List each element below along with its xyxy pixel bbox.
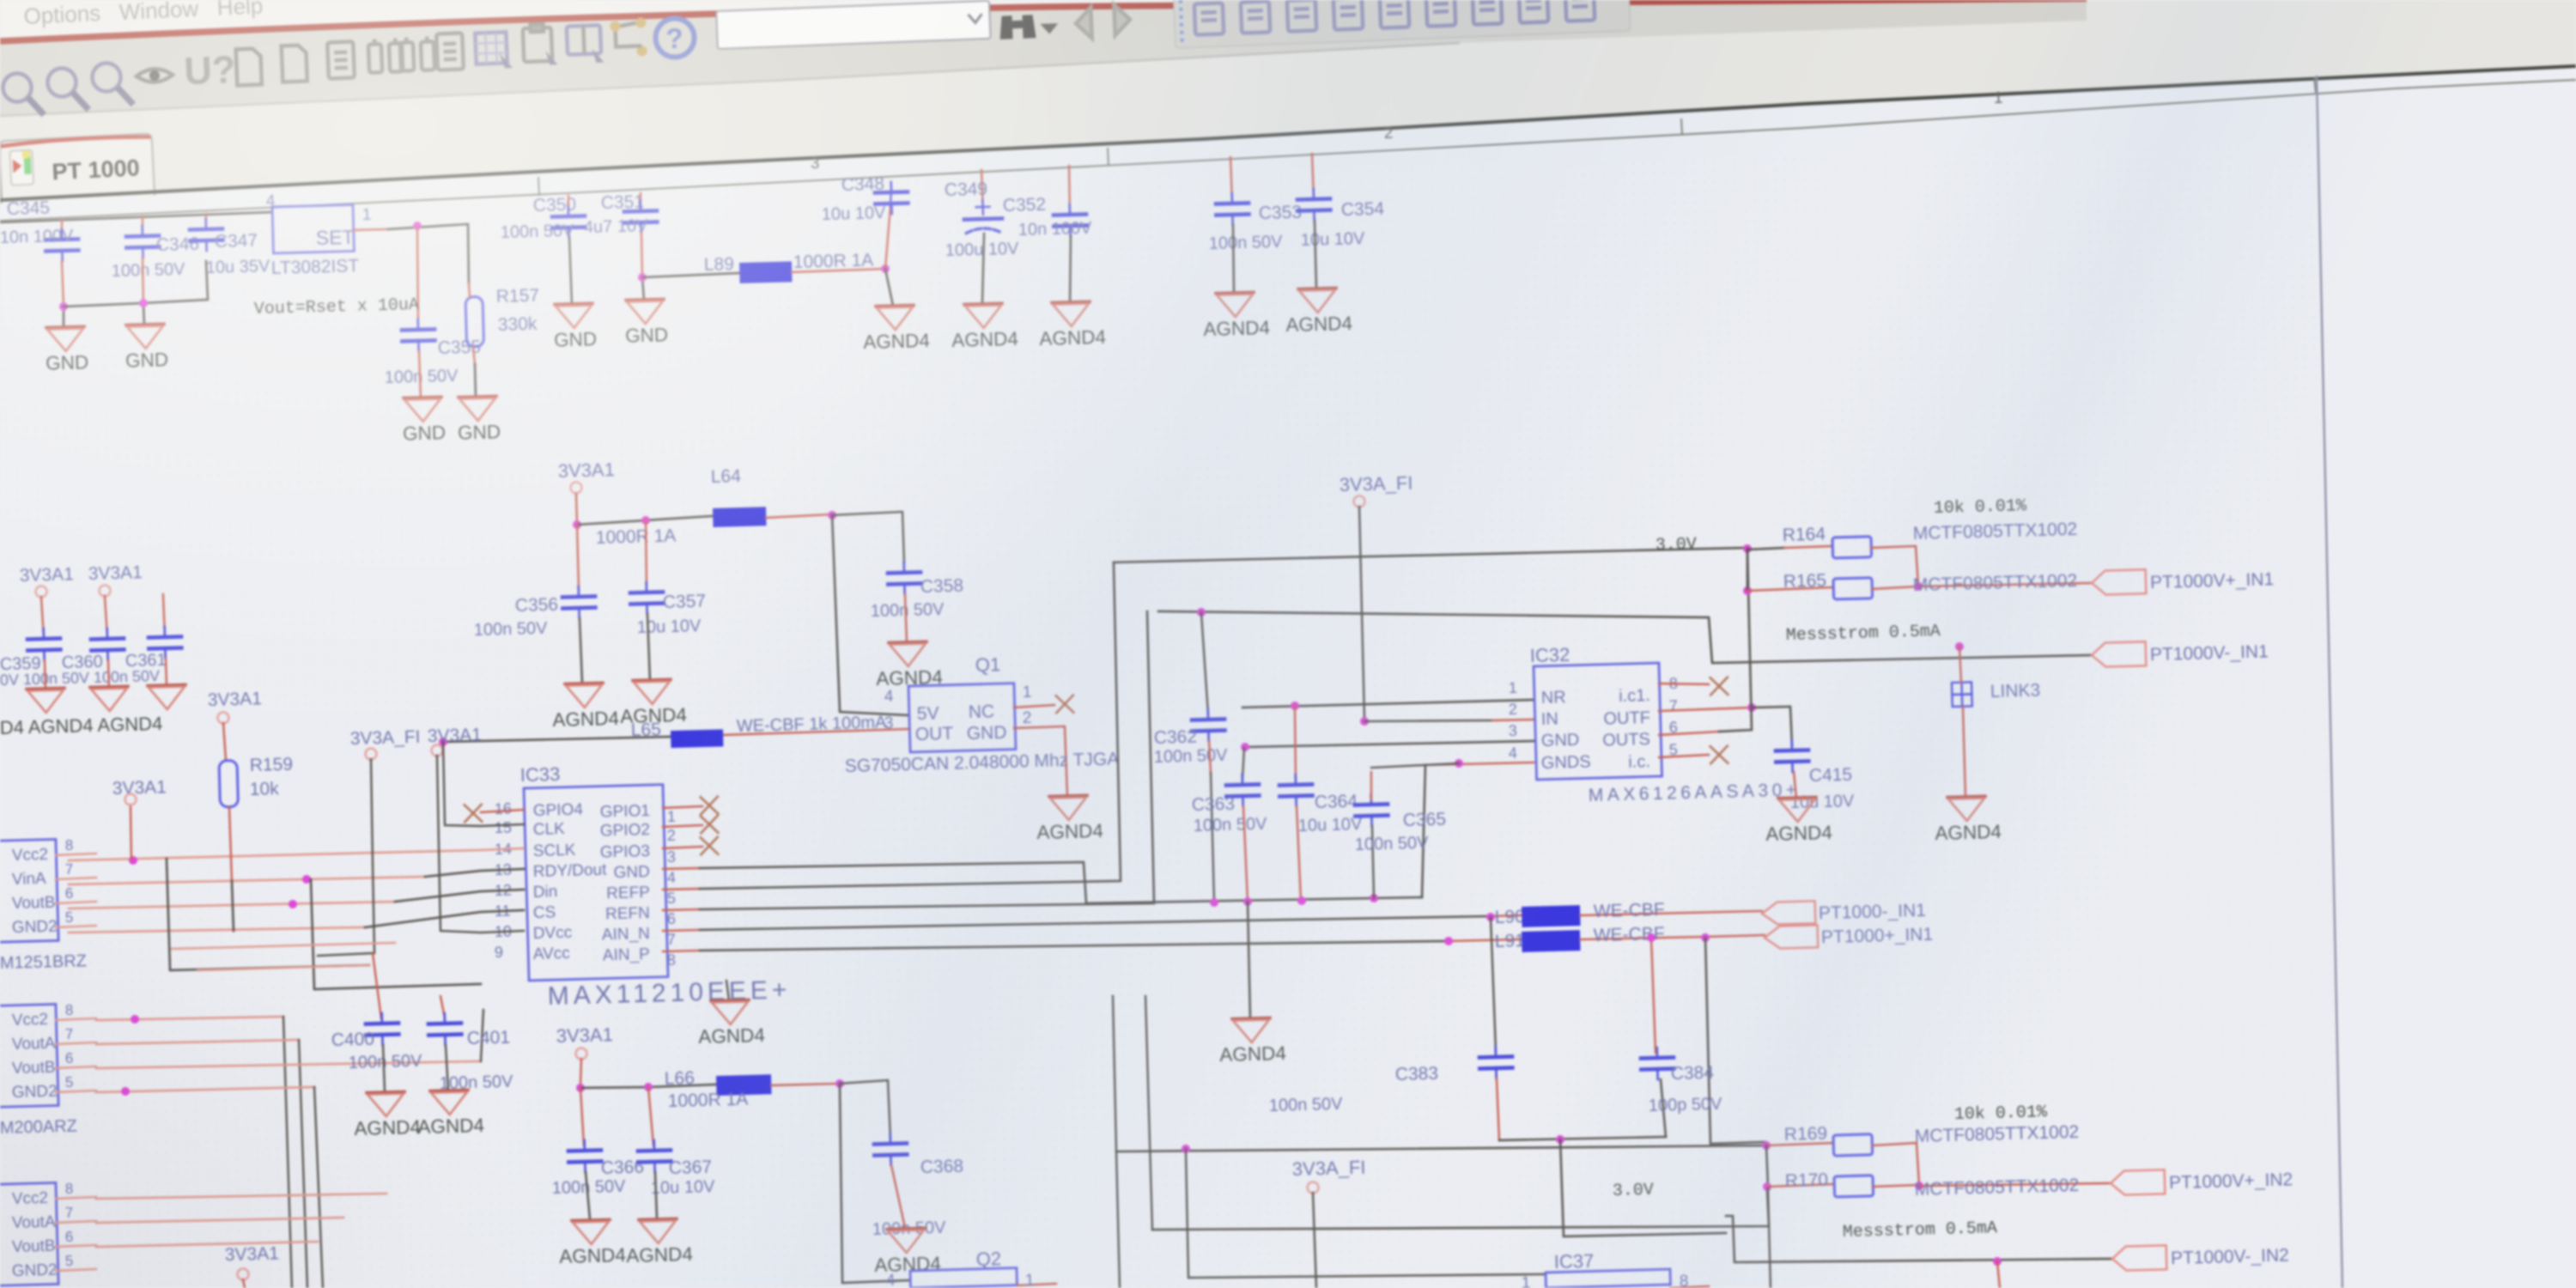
inductor L89 xyxy=(739,261,793,283)
svg-text:GPIO3: GPIO3 xyxy=(600,842,651,862)
ground AGND4 xyxy=(862,305,930,353)
wire OUTF to C415 xyxy=(1752,707,1792,746)
junction xyxy=(1370,894,1378,902)
wire mesh h4 xyxy=(69,925,365,936)
svg-text:PT1000V-_IN1: PT1000V-_IN1 xyxy=(2150,641,2269,665)
wire IC33 pin16 stub xyxy=(481,810,524,812)
ground AGND4 xyxy=(416,1090,484,1138)
power pin 3V3A1 xyxy=(237,1268,248,1279)
svg-text:100n 50V: 100n 50V xyxy=(1355,834,1430,854)
wire left block stub xyxy=(56,1066,96,1068)
ground GND xyxy=(624,299,668,346)
wire loop drop xyxy=(1560,1135,1726,1237)
svg-text:Vcc2: Vcc2 xyxy=(12,846,49,865)
wire C360 stem xyxy=(105,596,107,637)
sheet area top border line A xyxy=(0,66,2576,200)
svg-text:4: 4 xyxy=(266,192,276,210)
wire L91 out xyxy=(1580,936,1704,940)
wire OUTF out xyxy=(1659,708,1752,711)
IC block (left edge) xyxy=(0,839,58,943)
capacitor C356 xyxy=(562,586,596,619)
port PT1000+_IN1 xyxy=(1765,922,1934,949)
capacitor C360 xyxy=(91,628,125,660)
wire 3V3A1 bot down xyxy=(580,1059,582,1087)
svg-text:3: 3 xyxy=(811,155,820,173)
capacitor C415 xyxy=(1776,739,1809,772)
svg-text:1000R 1A: 1000R 1A xyxy=(668,1090,749,1112)
wire bus riser GNDS xyxy=(1419,765,1429,897)
toolbar band xyxy=(0,0,2087,116)
svg-text:PT1000-_IN1: PT1000-_IN1 xyxy=(1819,901,1926,923)
svg-text:?: ? xyxy=(665,22,684,55)
wire C365 col xyxy=(1370,772,1372,799)
svg-text:WE-CBF: WE-CBF xyxy=(1594,900,1665,921)
wire R170 in xyxy=(1768,1184,1834,1187)
ground AGND4 xyxy=(90,686,129,711)
wire L89 out xyxy=(792,269,885,272)
wire 3V3A_FI bot riser xyxy=(1313,1193,1316,1288)
toolbar icon doc xyxy=(436,33,464,70)
svg-text:R159: R159 xyxy=(249,755,293,775)
svg-text:RDY/Dout: RDY/Dout xyxy=(533,861,608,881)
svg-text:R164: R164 xyxy=(1782,525,1826,545)
port PT1000V-_IN1 xyxy=(2092,638,2269,667)
sheet frame number row line B xyxy=(0,80,2576,221)
svg-text:6: 6 xyxy=(65,1050,74,1066)
wire C355 drop xyxy=(416,226,420,319)
svg-text:7: 7 xyxy=(65,1205,74,1221)
power pin 3V3A1 xyxy=(575,1048,586,1059)
wire top rail W1 xyxy=(0,212,272,222)
svg-text:IN: IN xyxy=(1540,709,1558,729)
wire bot railB xyxy=(1151,1188,1769,1242)
toolbar icon cicon xyxy=(1334,0,1363,30)
svg-text:100n 50V: 100n 50V xyxy=(870,600,945,621)
svg-text:6: 6 xyxy=(65,885,74,902)
ground AGND4 xyxy=(875,641,943,690)
svg-text:SET: SET xyxy=(315,226,354,249)
svg-text:AGND4: AGND4 xyxy=(1285,313,1352,336)
capacitor C357 xyxy=(630,581,664,614)
port PT1000V-_IN2 xyxy=(2112,1242,2289,1271)
wire C364 down xyxy=(1297,806,1301,901)
wire C365 top link xyxy=(1371,763,1459,768)
wire C345 down xyxy=(62,261,64,307)
wire IC33 GND net xyxy=(663,868,700,869)
ground GND xyxy=(553,303,597,350)
no-connect X xyxy=(701,797,719,815)
svg-text:C349: C349 xyxy=(945,179,988,200)
wire R164 out xyxy=(1871,546,1918,587)
wire 3V3A_FI drop xyxy=(313,759,376,956)
svg-text:AGND4: AGND4 xyxy=(1219,1042,1286,1066)
svg-text:100n 50V: 100n 50V xyxy=(1193,815,1267,835)
svg-text:C415: C415 xyxy=(1809,765,1853,786)
junction xyxy=(302,875,311,884)
svg-text:C362: C362 xyxy=(1153,727,1197,748)
wire left block stub xyxy=(56,854,96,855)
wire loop to C384 xyxy=(1661,1079,1666,1137)
capacitor C366 xyxy=(568,1139,602,1172)
svg-text:10u 10V: 10u 10V xyxy=(651,1177,716,1198)
svg-text:C400: C400 xyxy=(331,1030,374,1050)
wire V- net 2 xyxy=(1726,1206,2112,1269)
wire left block stub xyxy=(56,1042,96,1044)
wire C415 down xyxy=(1794,772,1796,798)
ground AGND4 xyxy=(27,688,65,713)
junction xyxy=(638,273,647,282)
svg-text:10n 100V: 10n 100V xyxy=(1018,219,1093,240)
wire mesh h1 xyxy=(69,848,524,861)
svg-text:SCLK: SCLK xyxy=(533,841,577,860)
svg-text:100p 50V: 100p 50V xyxy=(1649,1095,1723,1115)
svg-text:GPIO1: GPIO1 xyxy=(600,802,651,822)
svg-text:C353: C353 xyxy=(1259,203,1303,223)
inductor L64 xyxy=(713,507,767,527)
svg-text:R157: R157 xyxy=(496,286,540,307)
svg-text:3V3A1: 3V3A1 xyxy=(19,564,74,586)
capacitor C400 xyxy=(366,1012,399,1045)
svg-text:AGND4: AGND4 xyxy=(1203,317,1270,340)
wire C357 drop xyxy=(645,520,647,586)
wire mesh v2 xyxy=(311,875,481,989)
svg-text:AIN_P: AIN_P xyxy=(603,945,650,964)
svg-text:6: 6 xyxy=(667,910,677,927)
svg-text:L64: L64 xyxy=(710,466,741,487)
svg-text:L91: L91 xyxy=(1495,931,1526,951)
capacitor C347 xyxy=(190,218,223,251)
svg-text:NC: NC xyxy=(969,702,995,722)
wire V-2 drop xyxy=(1997,1261,2000,1288)
junction xyxy=(644,1083,653,1091)
junction xyxy=(1197,608,1206,617)
power pin 3V3A1 xyxy=(35,586,46,597)
menu strip white xyxy=(0,0,2087,38)
svg-text:GND: GND xyxy=(125,349,169,371)
capacitor C354 xyxy=(1297,188,1331,221)
svg-text:5: 5 xyxy=(65,1074,74,1091)
wire R169 in xyxy=(1766,1143,1833,1145)
svg-text:1: 1 xyxy=(1509,679,1518,696)
junction xyxy=(59,302,68,311)
toolbar icon navr xyxy=(1114,4,1130,36)
wire IC33 nc stub xyxy=(663,825,702,827)
svg-text:C350: C350 xyxy=(533,195,577,216)
junction xyxy=(881,264,890,273)
IC block IC33 xyxy=(524,785,668,981)
svg-text:8: 8 xyxy=(667,951,677,969)
ground AGND4 xyxy=(148,684,186,709)
svg-text:100n 50V: 100n 50V xyxy=(112,260,186,281)
ground AGND4 xyxy=(1765,797,1832,845)
wire C351 down xyxy=(641,233,643,277)
svg-text:GND: GND xyxy=(554,328,598,350)
svg-text:DVcc: DVcc xyxy=(533,924,573,943)
toolbar icon cicon xyxy=(1426,0,1455,27)
ground AGND4 xyxy=(1934,796,2002,844)
svg-text:AGND4: AGND4 xyxy=(1935,821,2002,844)
toolbar icon page xyxy=(236,48,262,85)
capacitor C358 xyxy=(888,562,921,594)
wire bot Va xyxy=(1112,996,1121,1288)
toolbar icon zoom xyxy=(47,67,88,111)
svg-text:C356: C356 xyxy=(515,595,559,616)
ground AGND4 xyxy=(1036,795,1103,843)
svg-text:VoutA: VoutA xyxy=(12,1035,57,1054)
IC block Q1 xyxy=(908,683,1016,752)
junction xyxy=(439,738,447,746)
no-connect X xyxy=(1710,677,1728,696)
no-connect X xyxy=(465,805,483,823)
junction xyxy=(1762,1141,1771,1150)
svg-text:C368: C368 xyxy=(920,1157,964,1177)
svg-text:OUT: OUT xyxy=(914,724,953,744)
toolbar icon help xyxy=(655,18,696,58)
svg-text:100n 50V: 100n 50V xyxy=(501,222,575,242)
power pin 3V3A_FI xyxy=(365,748,376,759)
wire to V+ port xyxy=(1918,582,2092,588)
wire mesh h6 xyxy=(197,965,369,970)
wire IC33 nc stub xyxy=(663,847,702,848)
toolbar group 2 panel xyxy=(1174,0,1631,48)
resistor R170 xyxy=(1834,1176,1874,1197)
capacitor C367 xyxy=(638,1139,671,1172)
ground AGND4 xyxy=(625,1218,693,1267)
wire C354 stem xyxy=(1312,154,1314,199)
wire left block stub xyxy=(56,1221,96,1223)
ground AGND4 xyxy=(697,999,765,1048)
svg-text:GPIO2: GPIO2 xyxy=(600,821,651,841)
svg-text:100n 50V: 100n 50V xyxy=(1154,746,1229,767)
wire C350 stem xyxy=(568,196,568,216)
area right of sheet border: lighter xyxy=(2317,67,2576,1288)
svg-text:9: 9 xyxy=(495,944,504,961)
no-connect X xyxy=(701,816,719,834)
svg-text:GND: GND xyxy=(403,422,447,444)
wire C349 stem xyxy=(981,170,983,215)
ground AGND4 xyxy=(873,1228,941,1276)
svg-text:5V: 5V xyxy=(917,703,939,724)
IC block IC32 xyxy=(1534,663,1662,780)
svg-text:PT1000+_IN1: PT1000+_IN1 xyxy=(1821,925,1934,948)
wire Q2 pin1 nc xyxy=(1017,1284,1056,1285)
resistor R159 xyxy=(219,760,238,807)
red separator line xyxy=(0,0,2087,41)
svg-text:GND2: GND2 xyxy=(12,918,58,937)
junction xyxy=(1747,703,1756,712)
svg-text:GND2: GND2 xyxy=(12,1261,58,1280)
power pin 3V3A_FI xyxy=(1307,1182,1318,1193)
toolbar icon u xyxy=(183,47,236,93)
toolbar icon cicon xyxy=(1473,0,1502,25)
wire C367 down xyxy=(655,1172,657,1218)
wire C354 down xyxy=(1315,221,1316,289)
svg-text:C354: C354 xyxy=(1341,199,1385,220)
inductor L65 xyxy=(671,729,724,748)
svg-text:5: 5 xyxy=(65,909,74,926)
wire IC37 pin8 nc xyxy=(1670,1286,1709,1288)
svg-text:NR: NR xyxy=(1541,688,1566,708)
svg-text:GND: GND xyxy=(1541,731,1580,750)
capacitor C383 xyxy=(1479,1047,1513,1079)
wire left block stub xyxy=(56,1018,96,1020)
wire IC33 nc stub xyxy=(663,806,702,808)
wire C359 down xyxy=(44,660,46,689)
svg-text:AGND4: AGND4 xyxy=(951,328,1018,351)
wire R157 down xyxy=(473,347,475,364)
wire C346 stub xyxy=(142,216,143,236)
wire 3V3A1 down xyxy=(576,494,577,524)
wire bot Vb to IC37 pin1 xyxy=(1185,1139,1546,1284)
svg-text:1: 1 xyxy=(362,206,372,224)
wire C360 down xyxy=(107,660,110,687)
svg-text:C357: C357 xyxy=(663,592,707,612)
svg-text:PT 1000: PT 1000 xyxy=(52,155,140,185)
no-connect X xyxy=(701,837,719,855)
svg-text:C364: C364 xyxy=(1314,792,1358,812)
search combobox xyxy=(716,1,990,49)
wire left block3 h2 xyxy=(96,1216,343,1224)
svg-text:VoutB: VoutB xyxy=(12,1237,56,1256)
svg-text:100n 50V: 100n 50V xyxy=(349,1052,423,1072)
wire OUTS riser to 3.0V xyxy=(1714,549,1752,732)
wire C355 down xyxy=(419,351,421,398)
no-connect X xyxy=(1710,746,1728,764)
svg-text:5: 5 xyxy=(667,890,677,907)
svg-text:100n 50V: 100n 50V xyxy=(1209,233,1284,253)
junction xyxy=(1647,933,1656,942)
toolbar icon zoom xyxy=(92,62,133,106)
resistor R165 xyxy=(1833,578,1873,599)
svg-text:AGND4: AGND4 xyxy=(863,330,930,353)
svg-text:100n 50V: 100n 50V xyxy=(385,367,459,387)
toolbar icon cicon xyxy=(1287,0,1316,32)
wire C367 drop xyxy=(648,1087,653,1145)
svg-text:GND: GND xyxy=(458,421,501,443)
wire R169 out xyxy=(1872,1143,1919,1186)
svg-text:10k 0.01%: 10k 0.01% xyxy=(1934,496,2028,519)
wire R159 top xyxy=(223,723,226,761)
junction xyxy=(139,299,148,307)
svg-text:3V3A1: 3V3A1 xyxy=(224,1243,279,1265)
wire to V+ port 2 xyxy=(1919,1181,2111,1188)
power pin 3V3A1 xyxy=(570,482,581,493)
wire left block3 h3 xyxy=(96,1241,318,1248)
svg-text:100u 10V: 100u 10V xyxy=(945,240,1020,260)
toolbar icon page xyxy=(282,45,307,82)
wire L65 rail to Q1 pin3 xyxy=(443,736,671,743)
svg-text:REFN: REFN xyxy=(605,904,650,923)
wire C353 stem xyxy=(1230,157,1232,204)
svg-text:GND: GND xyxy=(613,863,650,882)
svg-text:7: 7 xyxy=(667,931,677,948)
wire SET pin1 xyxy=(353,229,388,230)
svg-text:C383: C383 xyxy=(1395,1064,1439,1084)
svg-text:1: 1 xyxy=(1023,683,1032,702)
svg-text:GNDS: GNDS xyxy=(1541,752,1591,773)
wire C352 stem xyxy=(1068,166,1070,215)
svg-text:GND2: GND2 xyxy=(12,1083,58,1102)
svg-text:100n 50V: 100n 50V xyxy=(1269,1095,1344,1115)
wire R169-R170 link xyxy=(1766,1145,1768,1187)
inductor L90 xyxy=(1522,905,1581,927)
svg-text:2: 2 xyxy=(667,827,677,844)
capacitor C351 xyxy=(624,201,658,234)
svg-text:OUTF: OUTF xyxy=(1603,708,1650,728)
capacitor C355 xyxy=(402,319,435,351)
svg-text:10k: 10k xyxy=(250,779,280,799)
wire C358 down xyxy=(905,594,907,642)
svg-text:D4 AGND4 AGND4: D4 AGND4 AGND4 xyxy=(0,713,163,738)
svg-text:10u 10V: 10u 10V xyxy=(1300,229,1365,250)
junction xyxy=(1743,544,1752,553)
svg-text:100n 50V: 100n 50V xyxy=(474,619,549,640)
svg-text:3.0V: 3.0V xyxy=(1613,1181,1655,1201)
wire left block stub xyxy=(56,1269,96,1271)
X IC32 pin8 xyxy=(1659,682,1709,685)
svg-text:L65: L65 xyxy=(631,720,662,740)
wire central agnd riser xyxy=(1247,902,1250,1018)
toolbar icon bottles xyxy=(400,36,435,71)
wire 3V3A1 riser mid xyxy=(130,805,131,860)
ground AGND4 xyxy=(951,303,1018,351)
wire R164-R165 link xyxy=(1747,550,1749,591)
wire C352 down xyxy=(1068,236,1072,302)
toolbar icon navl xyxy=(1075,8,1091,39)
svg-text:i.c.: i.c. xyxy=(1628,752,1650,772)
wire mesh v1 xyxy=(167,854,369,971)
ground AGND4 xyxy=(619,679,687,727)
svg-text:7: 7 xyxy=(65,1026,74,1042)
wire C356 drop xyxy=(577,525,579,591)
wire Q2 feed riser xyxy=(837,1082,910,1283)
capacitor C388 xyxy=(874,1133,908,1166)
svg-text:Messstrom 0.5mA: Messstrom 0.5mA xyxy=(1786,622,1941,646)
svg-text:Din: Din xyxy=(533,883,558,902)
wire LINK3 down xyxy=(1963,707,1965,796)
ground AGND4 xyxy=(558,1219,626,1267)
svg-text:L90: L90 xyxy=(1494,907,1525,927)
junction xyxy=(1182,1145,1190,1153)
svg-text:2: 2 xyxy=(1384,125,1394,143)
junction xyxy=(413,222,422,230)
ground GND xyxy=(45,326,88,374)
power pin 3V3A1 xyxy=(99,585,110,596)
svg-text:VoutB: VoutB xyxy=(12,894,56,913)
wire C400 riser xyxy=(373,953,381,1018)
svg-text:Vcc2: Vcc2 xyxy=(12,1189,49,1208)
svg-text:AGND4: AGND4 xyxy=(354,1116,421,1139)
capacitor C346 xyxy=(126,226,160,258)
svg-text:10u 10V: 10u 10V xyxy=(1298,815,1364,835)
wire L65 to 3V3A1 net xyxy=(442,739,524,827)
svg-text:2: 2 xyxy=(1023,709,1032,727)
wire C366 down xyxy=(586,1172,590,1219)
wire L66 rail xyxy=(580,1086,648,1089)
svg-text:GND: GND xyxy=(46,351,89,374)
svg-text:CS: CS xyxy=(533,903,556,922)
wire AIN_P to L91 xyxy=(663,951,700,951)
svg-text:L66: L66 xyxy=(665,1068,696,1089)
svg-text:10u 10V: 10u 10V xyxy=(822,204,887,224)
wire left block stub xyxy=(56,1245,96,1247)
wire Q1 pin1 nc xyxy=(1014,705,1054,708)
svg-text:1: 1 xyxy=(1994,89,2003,107)
svg-text:Messstrom 0.5mA: Messstrom 0.5mA xyxy=(1843,1218,1998,1242)
wire C351 stem xyxy=(640,193,641,211)
port PT1000V+_IN2 xyxy=(2111,1166,2293,1195)
port PT1000-_IN1 xyxy=(1762,898,1927,925)
